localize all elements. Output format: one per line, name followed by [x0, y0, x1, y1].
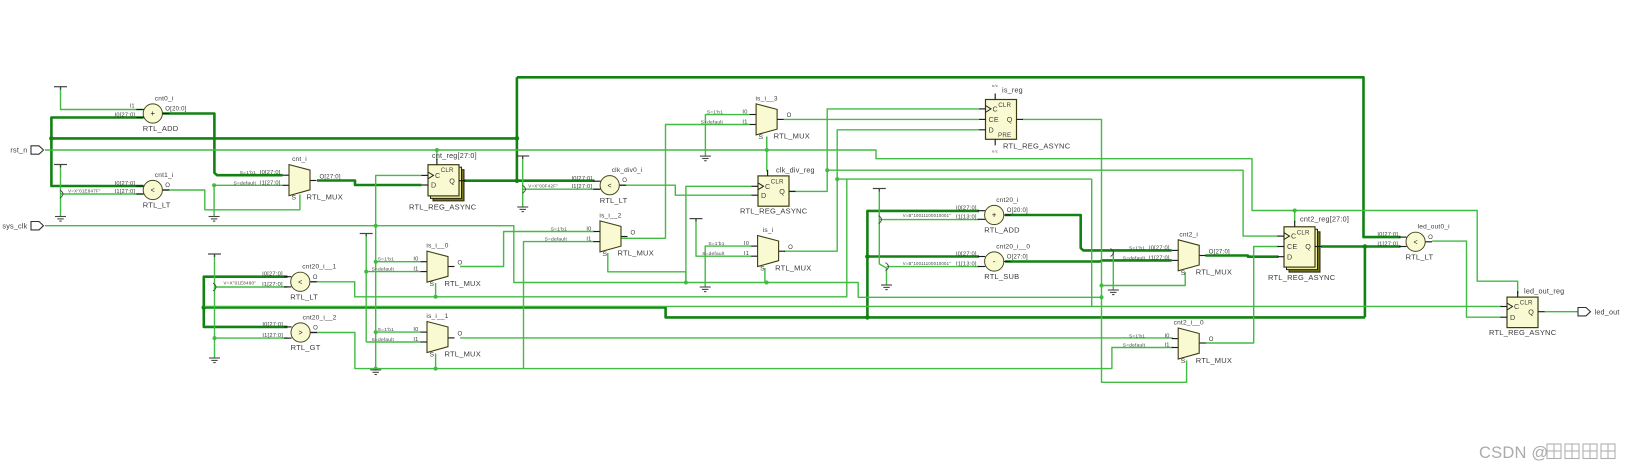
wire is_i__3 I0 ground constant — [705, 115, 749, 157]
svg-text:D: D — [1510, 313, 1515, 322]
svg-text:O[20:0]: O[20:0] — [1007, 208, 1028, 214]
svg-text:V=X"01E847F": V=X"01E847F" — [68, 188, 101, 193]
comparator cnt1_i RTL_LT — [115, 172, 174, 210]
svg-text:RTL_MUX: RTL_MUX — [445, 279, 481, 288]
ground under x522 constant — [517, 207, 528, 212]
svg-text:I0[27:0]: I0[27:0] — [956, 206, 977, 212]
node junction feeder at SUB I0 — [865, 254, 870, 259]
svg-text:is_i__2: is_i__2 — [599, 213, 621, 220]
svg-text:O: O — [788, 245, 793, 251]
node junction rst at cnt2_reg CLR — [1293, 209, 1297, 213]
node junction feeder on main bus — [865, 315, 870, 320]
svg-text:S: S — [1181, 270, 1186, 277]
wire cnt20_i O to cnt2_i I0 — [1005, 215, 1172, 250]
svg-text:I0: I0 — [744, 241, 749, 247]
svg-text:CLR: CLR — [998, 102, 1011, 109]
svg-text:led_out: led_out — [1595, 307, 1620, 316]
svg-text:I1: I1 — [1165, 343, 1170, 349]
svg-text:O: O — [458, 260, 463, 266]
mux is_i__0 RTL_MUX — [372, 243, 481, 288]
svg-text:I0: I0 — [413, 257, 418, 263]
svg-text:cnt2_i__0: cnt2_i__0 — [1174, 320, 1204, 327]
svg-text:+: + — [992, 211, 997, 220]
wire is_i I0 ground constant — [705, 246, 751, 287]
svg-text:C: C — [1514, 302, 1519, 311]
svg-text:I0[27:0]: I0[27:0] — [262, 272, 283, 278]
svg-text:CLR: CLR — [771, 178, 784, 185]
wire cnt20_i__2 O along bottom y368 to cnt2_i__0 I1 — [311, 333, 1173, 369]
svg-text:led_out0_i: led_out0_i — [1418, 224, 1450, 231]
svg-text:C: C — [993, 105, 998, 114]
svg-text:I0[27:0]: I0[27:0] — [1149, 245, 1170, 251]
svg-text:O[20:0]: O[20:0] — [165, 107, 186, 113]
wire clk_div_reg C riser from sys_clk — [686, 186, 752, 282]
svg-text:I1: I1 — [413, 267, 418, 273]
wire top rail cnt bus to led_out0_i I0 — [517, 77, 1401, 237]
svg-text:is_i: is_i — [763, 227, 774, 234]
node junction rst at cnt_reg CLR — [435, 148, 439, 152]
svg-text:V=X"01E8480": V=X"01E8480" — [224, 281, 257, 286]
svg-text:S=1'b1: S=1'b1 — [1129, 334, 1145, 340]
svg-text:<: < — [608, 183, 612, 190]
svg-text:I1[13:0]: I1[13:0] — [956, 262, 977, 268]
svg-text:RTL_LT: RTL_LT — [1406, 252, 1434, 261]
node junction on x376 at is_i__0 I0 — [374, 260, 378, 264]
wire main cnt2 bus bottom rail — [204, 308, 1365, 318]
wire rst_n net — [45, 150, 1518, 294]
wire cnt_i I1 ground constant — [213, 185, 215, 216]
svg-text:cnt1_i: cnt1_i — [155, 172, 174, 179]
svg-text:RTL_REG_ASYNC: RTL_REG_ASYNC — [1268, 273, 1336, 282]
input port rst_n — [31, 146, 44, 154]
wire is_i S stub down to sys_clk — [764, 268, 766, 283]
svg-text:O[27:0]: O[27:0] — [1209, 249, 1230, 255]
svg-text:S: S — [1181, 358, 1186, 365]
power tie T-bar for cnt0_i I1 — [54, 87, 67, 90]
value bracket cnt20_i__1 I1 — [213, 283, 216, 291]
node junction sys_clk at is_i S — [765, 281, 769, 285]
wire T-bar constant to is_i I1 — [696, 219, 751, 257]
ground under x214 constant — [209, 358, 220, 363]
svg-text:O[27:0]: O[27:0] — [1007, 255, 1028, 261]
wire cnt2_i O to cnt2_reg D — [1205, 256, 1278, 257]
wire is_i__1 S stub down — [435, 354, 437, 369]
svg-text:S=1'b1: S=1'b1 — [551, 227, 567, 233]
svg-text:I1: I1 — [586, 237, 591, 243]
svg-text:-: - — [993, 257, 996, 266]
svg-text:I1[27:0]: I1[27:0] — [1149, 255, 1170, 261]
wire cnt1_i I1 value wire — [61, 193, 144, 195]
wire cnt2 Q vertical drop x1365 — [1364, 247, 1367, 318]
wire led_out0_i O to led_out_reg D — [1432, 241, 1501, 317]
value bracket cnt1_i I1 — [60, 190, 63, 198]
svg-text:S: S — [430, 352, 435, 359]
mux cnt2_i__0 RTL_MUX — [1123, 320, 1232, 365]
wire is net drop x1092 to clock rail — [1091, 179, 1093, 306]
svg-text:RTL_REG_ASYNC: RTL_REG_ASYNC — [1003, 142, 1071, 151]
svg-text:S=1'b1: S=1'b1 — [240, 170, 256, 176]
wire sys_clk branch up to cnt_reg C and down to mux constants — [376, 175, 422, 368]
wire is_i__2 S wire to sys_clk riser — [608, 253, 686, 283]
svg-text:S=default: S=default — [234, 180, 257, 186]
ground cnt2_i constant — [1108, 290, 1119, 295]
svg-text:I1[27:0]: I1[27:0] — [571, 184, 592, 190]
svg-text:Q: Q — [1007, 115, 1013, 124]
wire constant x522 for clk_div0_i I1 — [522, 156, 524, 207]
svg-text:O[27:0]: O[27:0] — [320, 174, 341, 180]
svg-text:<: < — [151, 188, 155, 195]
wire A branch to is_i__0 I1 — [366, 271, 420, 273]
wire cnt2_i S wire — [1102, 272, 1186, 286]
wire constant A x366 T-bar line — [365, 234, 367, 343]
svg-text:I1[27:0]: I1[27:0] — [260, 180, 281, 186]
power tie T-bar x214 cnt20 comparators — [208, 254, 221, 257]
svg-text:S=default: S=default — [372, 337, 395, 343]
power tie T-bar x522 clk_div constant — [516, 156, 529, 159]
wire sys_clk net — [45, 226, 1102, 298]
mux cnt2_i RTL_MUX — [1123, 231, 1232, 276]
register led_out_reg RTL_REG_ASYNC — [1489, 287, 1564, 338]
svg-text:cnt20_i__1: cnt20_i__1 — [302, 264, 336, 271]
svg-text:cnt_i: cnt_i — [292, 156, 307, 163]
ground under x886 constant — [881, 285, 892, 290]
wire is_i__3 O to is_reg CE — [783, 118, 979, 120]
wire clk_div0_i O to clk_div_reg D — [619, 185, 751, 195]
wire cnt2_reg Q to led_out0_i I1 — [1321, 245, 1401, 248]
svg-text:O: O — [313, 326, 318, 332]
subtractor cnt20_i__0 RTL_SUB — [956, 243, 1030, 281]
svg-text:V=B"10011100010001": V=B"10011100010001" — [903, 261, 952, 266]
svg-text:Q: Q — [1305, 242, 1311, 251]
node junction y368 at is_i__1 S — [434, 367, 438, 371]
svg-text:I0: I0 — [1165, 334, 1170, 340]
wire long clock rail y306 to led_out_reg C — [205, 305, 1502, 307]
svg-text:S=1'b1: S=1'b1 — [707, 110, 723, 116]
comparator cnt20_i__2 RTL_GT — [262, 314, 336, 352]
svg-text:I1[27:0]: I1[27:0] — [262, 282, 283, 288]
wire rst branch to cnt_reg CLR — [436, 150, 438, 160]
svg-text:S=default: S=default — [545, 237, 568, 243]
wire is_i__1 I0 wire from x376 — [376, 331, 421, 333]
svg-text:V=B"10011100010001": V=B"10011100010001" — [903, 213, 952, 218]
node junction clk branch to cnt2_reg C — [825, 168, 829, 172]
node junction left end feedback bus — [49, 136, 54, 141]
ground under cnt1_i constant — [55, 217, 66, 222]
wire constant T to cnt0_i I1 — [61, 87, 144, 110]
svg-text:is_reg: is_reg — [1002, 86, 1023, 95]
svg-text:sys_clk: sys_clk — [2, 221, 27, 230]
svg-text:I0[27:0]: I0[27:0] — [115, 113, 136, 119]
svg-text:I0[27:0]: I0[27:0] — [260, 170, 281, 176]
svg-text:I0: I0 — [742, 110, 747, 116]
adder cnt0_i RTL_ADD — [115, 95, 187, 133]
wire is net cnt20_i__1 O along y297 up to y179 — [311, 179, 847, 297]
wire cnt20_i__2 I1 wire — [215, 337, 288, 339]
svg-text:S=1'b1: S=1'b1 — [1129, 245, 1145, 251]
svg-text:RTL_REG_ASYNC: RTL_REG_ASYNC — [409, 203, 477, 212]
comparator clk_div0_i RTL_LT — [571, 167, 642, 205]
svg-text:cnt0_i: cnt0_i — [155, 95, 174, 102]
output port led_out — [1578, 308, 1591, 316]
svg-text:I1[27:0]: I1[27:0] — [115, 189, 136, 195]
svg-text:I1: I1 — [413, 337, 418, 343]
svg-text:RTL_ADD: RTL_ADD — [143, 124, 179, 133]
comparator led_out0_i RTL_LT — [1377, 224, 1449, 262]
svg-text:I1: I1 — [130, 104, 135, 110]
svg-text:D: D — [761, 191, 766, 200]
wire cnt20_i__1 I1 value wire — [215, 286, 288, 288]
svg-text:is_i__0: is_i__0 — [426, 243, 448, 250]
svg-text:clk_div_reg: clk_div_reg — [776, 166, 815, 175]
svg-text:RTL_REG_ASYNC: RTL_REG_ASYNC — [740, 207, 808, 216]
svg-text:O: O — [313, 275, 318, 281]
ground cnt_i I1 constant — [209, 217, 220, 222]
svg-text:n/c: n/c — [992, 149, 998, 154]
wire is_i O to is_reg D — [784, 130, 979, 251]
node junction on x376 at is_i__1 I0 — [374, 330, 378, 334]
svg-text:cnt_reg[27:0]: cnt_reg[27:0] — [432, 151, 477, 160]
mux is_i__2 RTL_MUX — [545, 213, 654, 258]
svg-text:RTL_MUX: RTL_MUX — [774, 132, 810, 141]
svg-text:RTL_SUB: RTL_SUB — [984, 272, 1019, 281]
svg-text:S=default: S=default — [372, 267, 395, 273]
wire cnt_i O to cnt_reg D — [317, 181, 422, 186]
svg-text:Q: Q — [779, 187, 785, 196]
svg-text:I0[27:0]: I0[27:0] — [956, 252, 977, 258]
wire is net y179 horizontal — [837, 178, 1091, 180]
node junction bus left end — [202, 305, 207, 310]
node junction right end feedback bus — [515, 136, 520, 141]
svg-text:O: O — [165, 183, 170, 189]
power tie T-bar x879 cnt20 adder constants — [873, 189, 886, 192]
svg-text:rst_n: rst_n — [10, 146, 27, 155]
svg-text:I0[27:0]: I0[27:0] — [571, 176, 592, 182]
mux is_i RTL_MUX — [702, 227, 811, 272]
svg-text:D: D — [1287, 252, 1292, 261]
ground under x376 constant B — [370, 370, 381, 375]
wire cnt_reg Q to clk_div0_i I0 — [459, 179, 595, 182]
svg-text:RTL_MUX: RTL_MUX — [775, 263, 811, 272]
wire vertical bus x517 cnt_reg Q riser — [516, 77, 519, 180]
svg-text:cnt20_i__0: cnt20_i__0 — [996, 243, 1030, 250]
wire cnt20_i__0 O to cnt2_i I1 — [1005, 260, 1172, 261]
svg-text:clk_div0_i: clk_div0_i — [612, 167, 643, 174]
wire cnt_i I1 stub wire — [214, 184, 282, 186]
svg-text:S: S — [759, 134, 764, 141]
svg-text:C: C — [765, 182, 770, 191]
svg-text:V=X"00F42F": V=X"00F42F" — [528, 184, 558, 189]
wire led_out_reg Q to led_out port — [1544, 311, 1578, 313]
svg-text:O: O — [1428, 235, 1433, 241]
wire constant x214.5 for cnt20 comparators — [214, 254, 216, 358]
power tie T-bar x366 constant A — [360, 234, 373, 237]
wire rst branch to cnt2_reg CLR stub — [1294, 211, 1296, 223]
value bracket cnt20_i I1 — [879, 216, 882, 224]
svg-text:S=1'b1: S=1'b1 — [378, 257, 394, 263]
wire branch to cnt20_i__0 I0 — [867, 255, 979, 258]
register clk_div_reg RTL_REG_ASYNC — [740, 166, 815, 216]
svg-text:RTL_LT: RTL_LT — [600, 196, 628, 205]
power tie T-bar for is_i I1 — [690, 219, 703, 222]
svg-text:RTL_GT: RTL_GT — [291, 343, 321, 352]
svg-text:S: S — [292, 195, 297, 202]
svg-text:O: O — [458, 332, 463, 338]
svg-text:RTL_REG_ASYNC: RTL_REG_ASYNC — [1489, 328, 1557, 337]
svg-text:CLR: CLR — [1520, 300, 1533, 307]
wire is_i__1 O to cnt2_i__0 I0 — [460, 337, 1173, 339]
svg-text:I0[27:0]: I0[27:0] — [1377, 232, 1398, 238]
wire cnt feedback bus horizontal y138 — [51, 137, 517, 140]
adder cnt20_i RTL_ADD — [956, 197, 1028, 235]
svg-text:cnt20_i: cnt20_i — [996, 197, 1019, 204]
wire is_i__3 S stub — [766, 137, 768, 151]
svg-text:cnt2_reg[27:0]: cnt2_reg[27:0] — [1300, 215, 1349, 224]
svg-text:Q: Q — [1528, 307, 1534, 316]
register is_reg RTL_REG_ASYNC — [979, 86, 1071, 151]
svg-text:I1[27:0]: I1[27:0] — [262, 333, 283, 339]
node junction rst at clk_div area — [765, 148, 769, 152]
svg-text:O: O — [631, 230, 636, 236]
node junction sys_clk at clk_div_reg C riser — [684, 281, 688, 285]
node junction const at cnt20_i__2 I1 — [213, 336, 217, 340]
svg-text:I1: I1 — [742, 120, 747, 126]
svg-text:cnt20_i__2: cnt20_i__2 — [303, 314, 337, 321]
wire clk_div_reg Q up to is_reg C — [789, 109, 979, 191]
power tie T-bar for cnt1_i I1 constant — [54, 165, 67, 168]
svg-text:O: O — [622, 178, 627, 184]
value bracket cnt2_i constant — [1111, 249, 1114, 257]
svg-text:O: O — [1209, 337, 1214, 343]
wire A branch to is_i__1 I1 — [366, 341, 420, 343]
svg-text:cnt2_i: cnt2_i — [1179, 231, 1198, 238]
svg-text:S: S — [430, 281, 435, 288]
ground is_i I0 tie — [700, 287, 711, 292]
svg-text:RTL_MUX: RTL_MUX — [1196, 268, 1232, 277]
mux cnt_i RTL_MUX — [234, 156, 343, 201]
node junction A at is_i__0 I1 — [364, 270, 368, 274]
value bracket clk_div0_i I1 — [523, 185, 526, 193]
svg-text:n/c: n/c — [992, 83, 998, 88]
register cnt2_reg RTL_REG_ASYNC — [1268, 215, 1349, 283]
mux is_i__1 RTL_MUX — [372, 313, 481, 358]
svg-text:PRE: PRE — [998, 132, 1011, 139]
svg-text:CSDN @: CSDN @ — [1479, 444, 1548, 462]
wire clk branch to cnt2_reg C — [827, 170, 1278, 236]
wire is_reg Q down the is net — [1022, 119, 1187, 382]
svg-text:RTL_MUX: RTL_MUX — [307, 192, 343, 201]
node junction cnt_i I1 const — [212, 183, 216, 187]
svg-text:D: D — [989, 125, 994, 134]
node junction sys_clk at cnt_reg C branch — [374, 224, 378, 228]
svg-text:CLR: CLR — [441, 167, 454, 174]
svg-text:<: < — [298, 279, 302, 286]
wire cnt2_i I constant ground — [1112, 252, 1114, 290]
svg-text:I0: I0 — [586, 227, 591, 233]
svg-text:RTL_ADD: RTL_ADD — [984, 226, 1020, 235]
wire cnt2 bus feeder vertical x867 to adders — [867, 211, 979, 318]
svg-text:led_out_reg: led_out_reg — [1524, 287, 1564, 296]
svg-text:S=default: S=default — [1123, 343, 1146, 349]
node junction y297 at is_i__0 S — [434, 295, 438, 299]
node junction sys_clk line end — [1100, 295, 1104, 299]
wire is_i__2 I1 feeder vertical x523 — [524, 242, 595, 369]
svg-text:I1[13:0]: I1[13:0] — [956, 214, 977, 220]
node junction cnt_reg Q riser — [515, 178, 520, 183]
svg-text:RTL_MUX: RTL_MUX — [1196, 356, 1232, 365]
wire rst branch to is_i__3 S and clk_div_reg CLR — [766, 137, 768, 172]
svg-text:+: + — [150, 109, 155, 118]
svg-text:CLR: CLR — [1297, 229, 1310, 236]
svg-text:is_i__1: is_i__1 — [426, 313, 448, 320]
ground is_i__3 I0 tie — [700, 156, 711, 161]
wire is_i__0 O to is_i__2 I0 — [460, 232, 594, 267]
wire cnt2_i__0 O to cnt2_reg CE — [1205, 247, 1278, 344]
svg-text:S=1'b1: S=1'b1 — [378, 327, 394, 333]
wire is_i__0 S stub down — [435, 283, 437, 297]
wire constants for cnt20 adders x879 — [879, 189, 886, 286]
svg-text:is_i__3: is_i__3 — [756, 96, 778, 103]
svg-text:D: D — [431, 181, 436, 190]
node junction cnt2 Q branch — [1363, 244, 1368, 249]
register cnt_reg RTL_REG_ASYNC — [409, 151, 477, 212]
svg-text:CE: CE — [1287, 242, 1297, 251]
node junction is tap on is_reg D riser — [835, 177, 839, 181]
wire branch to is_i__0 I0 — [376, 261, 421, 263]
svg-text:S: S — [760, 266, 765, 273]
svg-text:<: < — [1413, 239, 1417, 246]
svg-text:C: C — [435, 171, 440, 180]
input port sys_clk — [31, 222, 44, 230]
svg-text:I1: I1 — [744, 251, 749, 257]
svg-text:I0[27:0]: I0[27:0] — [115, 181, 136, 187]
svg-text:S=default: S=default — [702, 251, 725, 257]
svg-text:Q: Q — [449, 176, 455, 185]
wire cnt20_i__0 I1 value wire — [887, 266, 980, 268]
svg-text:C: C — [1291, 232, 1296, 241]
value bracket cnt20_i__0 I1 — [886, 263, 889, 271]
svg-text:S=1'b1: S=1'b1 — [708, 241, 724, 247]
wire is_i__2 O up to is_i__3 I1 — [620, 125, 750, 239]
svg-text:RTL_LT: RTL_LT — [290, 292, 318, 301]
svg-text:RTL_MUX: RTL_MUX — [618, 249, 654, 258]
wire cnt0_i sum output bus (O to cnt_i I0) — [163, 114, 283, 176]
node junction is net at cnt2_i S — [1100, 284, 1104, 288]
svg-text:S: S — [603, 251, 608, 258]
svg-text:CE: CE — [989, 115, 999, 124]
comparator cnt20_i__1 RTL_LT — [262, 264, 336, 302]
wire vertical bus x51 feeding cnt0_i.I0 and cnt1_i.I0 — [51, 118, 143, 187]
svg-text:I0[27:0]: I0[27:0] — [262, 322, 283, 328]
node junction y368 at B ground — [374, 367, 378, 371]
wire vertical x204 to cnt20 comparators — [204, 277, 288, 327]
svg-text:I1[27:0]: I1[27:0] — [1377, 242, 1398, 248]
wire clk_div0_i I1 value wire — [523, 188, 600, 190]
svg-text:O: O — [787, 113, 792, 119]
svg-text:I0: I0 — [413, 327, 418, 333]
svg-text:RTL_MUX: RTL_MUX — [445, 349, 481, 358]
svg-text:S=default: S=default — [701, 120, 724, 126]
wire constant to cnt1_i I1 — [60, 165, 62, 217]
svg-text:>: > — [298, 330, 302, 337]
wire cnt20_i I1 value wire — [879, 219, 979, 221]
svg-text:S=default: S=default — [1123, 255, 1146, 261]
wire cnt1_i O to cnt_i S — [163, 190, 300, 210]
mux is_i__3 RTL_MUX — [701, 96, 810, 141]
svg-text:RTL_LT: RTL_LT — [143, 201, 171, 210]
